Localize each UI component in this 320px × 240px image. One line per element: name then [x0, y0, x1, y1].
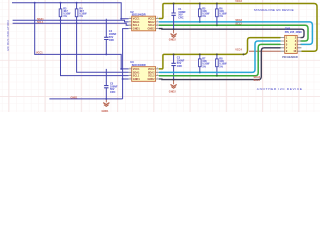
grid major: [0, 0, 320, 112]
svg-text:2: 2: [130, 21, 131, 23]
wire: bus line2 SCL1: [13, 23, 129, 25]
svg-text:GND2: GND2: [169, 38, 177, 41]
wire: SCL4 green bottom: [159, 44, 281, 75]
svg-text:STANDALONE I2C DEVICE: STANDALONE I2C DEVICE: [254, 8, 294, 12]
junction dot GND2 bottom: [173, 79, 175, 81]
svg-text:PIN HEADER: PIN HEADER: [282, 56, 298, 59]
svg-text:GND2: GND2: [148, 28, 156, 31]
junction dot cyan R5: [199, 21, 201, 23]
ground GND2 symbol bottom: [171, 80, 177, 88]
svg-text:GND1: GND1: [133, 28, 141, 31]
wire: SDA4 cyan bottom: [159, 41, 281, 72]
svg-text:GND1: GND1: [102, 110, 110, 112]
wire: SDA branch to U3: [61, 20, 129, 75]
svg-text:GND2: GND2: [169, 90, 177, 93]
wire: bus line1 SDA1: [13, 20, 129, 22]
svg-text:SCL2: SCL2: [235, 23, 242, 26]
op-amp U2 isolator ISO1540DR: [129, 10, 159, 31]
wire: VCC2 olive right loop down: [301, 7, 317, 52]
svg-text:CRC: CRC: [178, 16, 184, 19]
svg-text:GND2: GND2: [148, 78, 156, 81]
svg-text:VCC1: VCC1: [36, 52, 43, 55]
svg-text:6: 6: [157, 24, 158, 26]
svg-text:I2C BUS ISOLATION: I2C BUS ISOLATION: [6, 20, 10, 51]
wire: VCC1 branch down-left: [35, 3, 129, 69]
svg-text:8: 8: [157, 68, 158, 70]
svg-text:3: 3: [130, 74, 131, 76]
wire: GND1 bottom line: [49, 98, 122, 100]
capacitor C3: [171, 54, 184, 79]
junction dots on VCC2 rails: [173, 3, 245, 56]
wire: VCC2 olive top rail: [159, 4, 317, 19]
wire: GND1 vertical from U2/U3: [123, 29, 129, 99]
svg-text:CRC: CRC: [109, 39, 115, 42]
connector CN2: [281, 27, 303, 60]
svg-text:6: 6: [157, 74, 158, 76]
svg-text:PIN_2X5_24MC: PIN_2X5_24MC: [285, 31, 303, 34]
grid minor: [0, 0, 320, 112]
junction dot cyan R7: [199, 71, 201, 73]
op-amp U3 isolator ISO1540DR: [129, 60, 159, 81]
svg-text:GND1: GND1: [133, 78, 141, 81]
svg-text:1: 1: [130, 17, 131, 19]
wire: VCC thin red to pin9: [249, 50, 281, 52]
svg-text:GND1: GND1: [71, 96, 79, 99]
wire: GND2 dark bottom: [159, 48, 281, 80]
wire: VCC1 top rail: [12, 3, 129, 19]
svg-text:SCL1: SCL1: [37, 21, 44, 24]
svg-text:5: 5: [157, 78, 158, 80]
svg-text:2: 2: [130, 71, 131, 73]
capacitor C5: [104, 69, 118, 99]
wire: GND2 dark top: [159, 29, 304, 38]
resistor R5: [199, 4, 211, 22]
svg-text:CRC: CRC: [177, 65, 183, 68]
svg-text:4: 4: [130, 78, 131, 80]
svg-text:7: 7: [157, 21, 158, 23]
svg-text:3: 3: [130, 24, 131, 26]
wire: SCL2 green top: [159, 25, 308, 41]
junction dot green R6: [216, 24, 218, 26]
svg-text:8: 8: [157, 17, 158, 19]
capacitor C1: [171, 4, 186, 30]
svg-text:VCC2: VCC2: [235, 0, 242, 3]
svg-text:VCC4: VCC4: [235, 49, 242, 52]
resistor R7: [199, 54, 211, 72]
junction dots navy: [34, 2, 124, 100]
junction dot GND2 top: [173, 28, 175, 30]
wire: VCC2 olive bottom rail: [159, 54, 244, 69]
resistor R3: [59, 3, 71, 21]
svg-text:CN2: CN2: [285, 27, 291, 31]
svg-text:1: 1: [130, 68, 131, 70]
wire: SDA2 cyan top: [159, 22, 313, 45]
svg-text:4: 4: [130, 27, 131, 29]
svg-text:CRC: CRC: [110, 91, 116, 94]
wire: SCL branch to U3: [77, 23, 129, 72]
svg-text:7: 7: [157, 71, 158, 73]
resistor R6: [216, 4, 228, 26]
junction dot green R8: [216, 75, 218, 77]
svg-text:SCL4: SCL4: [254, 79, 261, 82]
capacitor C4: [104, 19, 117, 55]
svg-text:5: 5: [157, 27, 158, 29]
resistor R8: [216, 54, 228, 75]
ground GND2 symbol top: [171, 30, 177, 38]
svg-text:ANOTHER I2C DEVICE: ANOTHER I2C DEVICE: [257, 87, 302, 91]
resistor R4: [75, 3, 87, 24]
wire: VCC2 olive to pin1: [244, 38, 281, 55]
ground GND1 symbol: [103, 100, 109, 107]
